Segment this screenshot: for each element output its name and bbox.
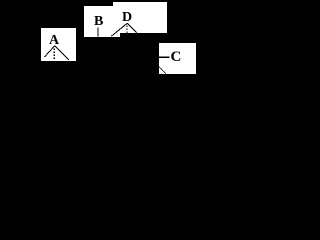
wire at C box corner: [159, 67, 166, 74]
node D label box: [113, 2, 167, 33]
antenna D dotted feed line: [126, 26, 127, 33]
label A: [49, 34, 59, 48]
label B: [94, 15, 103, 29]
node A label box: [41, 28, 76, 61]
antenna A right leg: [55, 46, 69, 60]
node B label box: [84, 6, 120, 37]
antenna D right leg: [127, 23, 136, 32]
wire into C: [159, 56, 170, 58]
label D: [122, 11, 132, 25]
antenna A left leg: [45, 46, 55, 57]
node C label box: [159, 43, 196, 74]
label C: [171, 50, 182, 65]
antenna D left leg: [111, 23, 127, 36]
wire below B: [97, 27, 99, 36]
antenna A dotted feed line: [54, 48, 55, 59]
